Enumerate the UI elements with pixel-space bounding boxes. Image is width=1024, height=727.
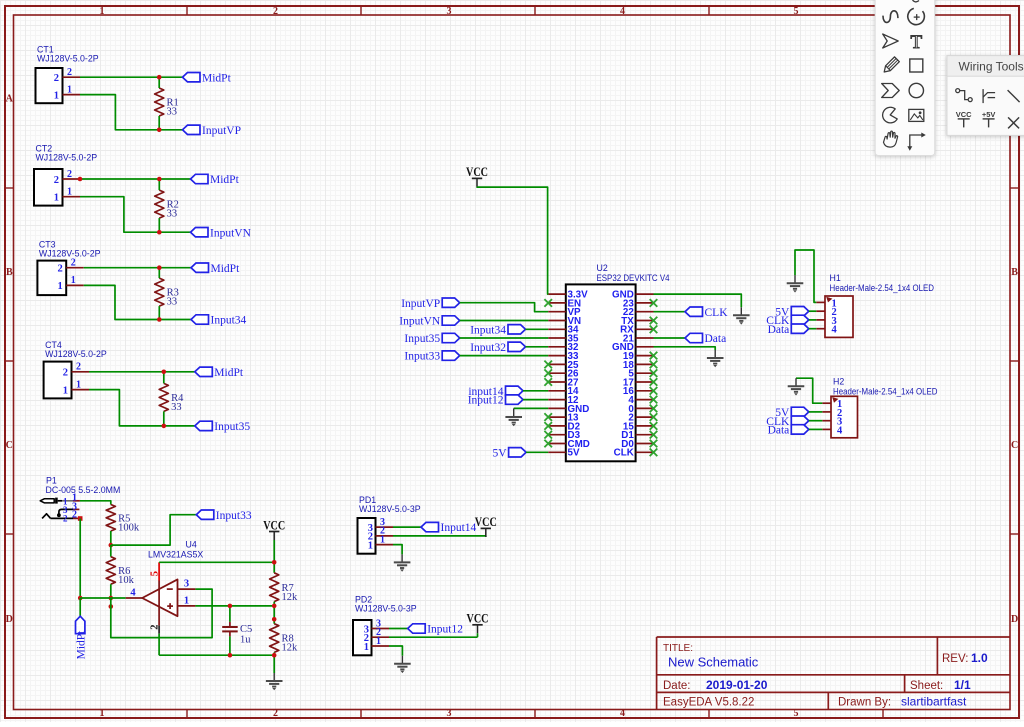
svg-text:10k: 10k — [118, 575, 135, 586]
svg-text:New Schematic: New Schematic — [668, 655, 759, 670]
net label Input32 — [470, 342, 525, 354]
svg-text:Input35: Input35 — [404, 333, 440, 345]
U2 right pin 22 stub — [636, 311, 654, 313]
PD1 pin number 1 — [380, 534, 385, 545]
CT1 pin name 1 — [54, 90, 59, 101]
wire H2 CLK — [809, 420, 823, 422]
connector CT3 part name WJ128V-5.0-2P — [39, 249, 101, 259]
connector H2 body — [831, 396, 858, 438]
CT4 pin 1 stub — [72, 389, 90, 391]
wire PD2 pin1 to ground — [389, 646, 402, 656]
no-connect X U2 right pin RX row 4 — [650, 326, 658, 334]
U2 pin name D2 (left) — [568, 421, 581, 432]
title block TITLE label — [663, 643, 693, 654]
U2 pin name GND (left) — [568, 404, 590, 415]
net label Input34 (CT3) — [191, 315, 247, 327]
no-connect X U2 right pin 15 row 15 — [650, 422, 658, 430]
U2 pin name VN (left) — [568, 316, 582, 327]
no-connect X U2 left pin EN — [544, 299, 552, 307]
wire R1 bottom lead — [158, 116, 160, 130]
svg-text:1: 1 — [368, 540, 373, 551]
U2 pin name EN (left) — [568, 298, 582, 309]
frame column label 3 top — [447, 6, 452, 17]
title block frame — [657, 637, 1010, 710]
svg-text:VCC: VCC — [263, 518, 285, 532]
U2 pin name 22 (right) — [623, 307, 634, 318]
U2 right pin 2 stub — [636, 416, 654, 418]
PD1 pin name 3 — [368, 523, 373, 534]
no-connect X U2 right pin D0 row 17 — [650, 440, 658, 448]
PD1 part name WJ128V-5.0-3P — [359, 504, 421, 514]
U2 pin name TX (right) — [621, 316, 634, 327]
svg-text:1u: 1u — [240, 634, 251, 645]
wire CT4 pin1 jog down — [89, 390, 195, 426]
frame column label 2 bottom — [273, 708, 278, 719]
toolbar icon polygon arrow — [882, 84, 900, 98]
svg-text:12k: 12k — [282, 643, 299, 654]
wire R5 bottom lead — [110, 531, 112, 545]
wire Input33 to U2 33 — [460, 355, 549, 357]
H1 pin1 marker — [826, 297, 832, 303]
U2 left pin 26 stub — [548, 372, 566, 374]
U2 pin name 3.3V (left) — [568, 290, 589, 301]
wire U4 pin5 to VCC net — [159, 561, 274, 563]
svg-text:D: D — [6, 614, 13, 625]
H1 pin name 3 — [832, 316, 837, 327]
svg-text:VCC: VCC — [467, 612, 489, 626]
net label CLK (H1) — [766, 315, 809, 327]
wire U4 pin2 down — [158, 634, 160, 656]
svg-text:EasyEDA V5.8.22: EasyEDA V5.8.22 — [663, 697, 754, 709]
svg-text:C: C — [6, 440, 13, 451]
wire R6 bottom lead — [110, 584, 112, 598]
wire R5 junction to Input33 — [111, 515, 197, 545]
svg-text:1: 1 — [364, 642, 369, 653]
svg-text:3: 3 — [447, 6, 452, 17]
wire VCC down to junction — [273, 540, 275, 573]
PD2 pin number 2 — [376, 627, 381, 638]
U2 left pin 25 stub — [548, 363, 566, 365]
junction C5 bottom — [228, 653, 233, 658]
CT4 pin name 2 — [63, 368, 68, 379]
svg-text:WJ128V-5.0-2P: WJ128V-5.0-2P — [36, 153, 98, 163]
connector H1 body — [825, 296, 853, 337]
svg-text:B: B — [6, 267, 13, 278]
U2 pin name GND (right) — [612, 290, 634, 301]
connector PD1 body — [358, 518, 376, 554]
CT4 pin 2 stub — [72, 371, 90, 373]
net label Data (H2) — [768, 425, 809, 437]
wire H2 Data — [809, 428, 823, 430]
junction below R7 — [272, 617, 277, 622]
toolbar partial icon (cut off top) — [913, 0, 920, 2]
U2 left pin D3 stub — [548, 434, 566, 436]
U2 pin name 21 (right) — [623, 333, 634, 344]
P1 pin name 1 — [63, 496, 68, 506]
wire R4 bottom lead — [163, 411, 165, 426]
ground symbol analog — [266, 673, 283, 690]
no-connect X U2 right pin 4 row 12 — [650, 396, 658, 404]
drawing tools palette panel — [875, 0, 935, 156]
U2 left pin 13 stub — [548, 416, 566, 418]
U2 pin name 17 (right) — [623, 377, 634, 388]
H1 part name Header-Male-2.54_1x4 OLED — [830, 283, 935, 293]
connector CT4 designator — [45, 340, 62, 350]
P1 pin 3 contact — [57, 509, 79, 517]
svg-text:2: 2 — [72, 509, 77, 520]
frame column ticks — [187, 6, 883, 718]
wire feedback loop — [111, 589, 212, 638]
toolbar icon rectangle — [910, 59, 923, 72]
U2 right pin GND stub — [636, 346, 654, 348]
wire U2 22 to CLK — [654, 311, 686, 313]
PD2 part name WJ128V-5.0-3P — [355, 604, 417, 614]
CT2 pin number 2 — [67, 169, 72, 180]
svg-text:Input34: Input34 — [470, 324, 506, 336]
svg-text:2: 2 — [67, 67, 72, 78]
CT3 pin name 1 — [57, 281, 62, 292]
svg-text:1: 1 — [57, 281, 62, 292]
net label 5V (H2) — [775, 407, 809, 419]
wire CT1 pin1 jog down — [80, 95, 183, 130]
title block REV label — [942, 653, 968, 665]
wire output net to MidPt flag — [79, 598, 81, 616]
CT4 pin number 2 — [76, 362, 81, 373]
P1 pin name 2 — [63, 514, 68, 524]
connector CT3 body — [37, 261, 66, 296]
U2 left pin 5V stub — [548, 451, 566, 453]
svg-text:U4: U4 — [186, 540, 197, 550]
svg-text:4: 4 — [620, 708, 625, 719]
capacitor C5 1u — [222, 622, 252, 646]
H2 pin 4 stub — [822, 428, 831, 430]
U2 pin name D0 (right) — [621, 439, 634, 450]
U2 right pin D1 stub — [636, 434, 654, 436]
svg-text:5V: 5V — [568, 448, 580, 459]
ground symbol PD2 — [394, 656, 411, 673]
H2 pin 2 stub — [822, 411, 831, 413]
wiring tools icon VCC — [956, 110, 972, 127]
net label Input14 — [421, 522, 477, 534]
no-connect X U2 left pin 25 — [544, 361, 552, 369]
wire H1 5V — [809, 310, 817, 312]
U2 pin name VP (left) — [568, 307, 582, 318]
P1 pin number 3 — [72, 502, 77, 513]
P1 pin 2 sleeve contact — [42, 514, 79, 519]
frame column label 2 top — [273, 6, 278, 17]
wire PD1 pin1 to ground — [393, 545, 402, 555]
wire CT2 pin1 jog down — [80, 197, 191, 233]
wire InputVN to U2 VN — [460, 320, 549, 322]
title block date value 2019-01-20 — [706, 678, 768, 692]
svg-text:1: 1 — [100, 6, 105, 17]
PD2 pin 2 stub — [372, 636, 390, 638]
U2 left pin 35 stub — [548, 337, 566, 339]
op IC U2 body — [566, 284, 636, 461]
svg-text:LMV321AS5X: LMV321AS5X — [148, 549, 203, 559]
wire input14 to U2 14 — [523, 390, 548, 392]
wire PD2 pin2 to VCC — [389, 636, 478, 638]
wire H2 5V — [809, 411, 823, 413]
net label InputVP — [183, 125, 241, 137]
U2 pin name 14 (left) — [568, 386, 579, 397]
frame column label 1 bottom — [100, 708, 105, 719]
svg-text:InputVP: InputVP — [202, 125, 241, 137]
wire PD2 pin3 to Input12 — [389, 628, 408, 630]
svg-text:H1: H1 — [830, 273, 841, 283]
U2 pin name 35 (left) — [568, 333, 579, 344]
wire P1 pin1 to R5 — [80, 501, 111, 505]
CT4 pin number 1 — [76, 379, 81, 390]
no-connect X U2 left pin D3 — [544, 431, 552, 439]
net label MidPt (CT3) — [191, 263, 240, 275]
frame row label B right — [1011, 267, 1018, 278]
U2 right pin 23 stub — [636, 302, 654, 304]
svg-text:Input33: Input33 — [216, 510, 252, 522]
junction output net at R6 — [109, 596, 114, 601]
svg-text:2019-01-20: 2019-01-20 — [706, 678, 768, 692]
ground symbol H2 — [788, 378, 805, 395]
svg-text:P1: P1 — [46, 476, 57, 486]
resistor R2 33 — [155, 190, 179, 220]
U4 pin 1 stub — [178, 605, 196, 607]
U2 right pin TX stub — [636, 320, 654, 322]
wire 5V to U2 5V — [526, 451, 548, 453]
wire H1 CLK — [809, 319, 817, 321]
net label 5V (U2) — [493, 447, 527, 459]
U2 right pin CLK stub — [636, 451, 654, 453]
wire PD1 pin3 to Input14 — [393, 526, 421, 528]
svg-text:Data: Data — [768, 425, 790, 437]
toolbar icon image — [909, 109, 924, 121]
svg-text:Data: Data — [768, 324, 790, 336]
svg-text:12k: 12k — [282, 592, 299, 603]
no-connect X U2 right pin 17 row 10 — [650, 378, 658, 386]
resistor R5 100k — [106, 505, 140, 534]
wire VCC to U2 3.3V — [477, 187, 548, 294]
PD1 pin name 1 — [368, 540, 373, 551]
no-connect X U2 left pin 26 — [544, 369, 552, 377]
svg-text:1: 1 — [380, 534, 385, 545]
wire CT1 pin2 to MidPt — [80, 76, 183, 78]
P1 pin name 3 — [63, 505, 68, 515]
resistor R1 33 — [155, 88, 179, 118]
U2 right pin 17 stub — [636, 381, 654, 383]
power flag VCC (PD2) — [467, 612, 489, 638]
resistor R6 10k — [106, 557, 134, 586]
svg-text:1: 1 — [184, 595, 189, 606]
title block sheet value 1/1 — [954, 678, 971, 692]
U4 pin number 4 — [130, 588, 136, 599]
PD2 pin name 2 — [364, 633, 369, 644]
net label MidPt (CT1) — [183, 72, 232, 84]
power flag VCC (U4) — [263, 518, 285, 540]
U2 left pin 27 stub — [548, 381, 566, 383]
svg-text:1.0: 1.0 — [971, 651, 988, 665]
net label Input35 (CT4) — [195, 421, 251, 433]
svg-text:CLK: CLK — [614, 448, 634, 459]
wire U2 21 to Data — [654, 337, 686, 339]
no-connect X U2 right pin 19 row 7 — [650, 352, 658, 360]
frame column label 5 bottom — [794, 708, 799, 719]
wire R3 bottom lead — [158, 306, 160, 319]
net label Input34 (U2) — [470, 324, 525, 336]
U2 right pin 5 stub — [636, 372, 654, 374]
no-connect X U2 right pin 0 row 13 — [650, 405, 658, 413]
U2 left pin GND stub — [548, 407, 566, 409]
junction CT3 top — [157, 265, 162, 270]
wiring tools panel — [947, 56, 1024, 136]
wire CT3 pin2 to MidPt — [84, 267, 191, 269]
wiring tools icon wire — [956, 89, 973, 102]
U2 left pin 33 stub — [548, 355, 566, 357]
no-connect X U2 right pin 2 row 14 — [650, 413, 658, 421]
toolbar icon arrow — [883, 34, 899, 48]
net label CLK (H2) — [766, 416, 809, 428]
U2 pin name CLK (right) — [614, 448, 634, 459]
CT3 pin number 2 — [71, 258, 76, 269]
frame row label C left — [6, 440, 13, 451]
U2 right pin GND stub — [636, 293, 654, 295]
svg-text:InputVN: InputVN — [399, 316, 441, 328]
svg-text:MidPt: MidPt — [210, 174, 240, 186]
svg-text:ESP32 DEVKITC V4: ESP32 DEVKITC V4 — [597, 273, 670, 283]
svg-text:Data: Data — [705, 333, 727, 345]
svg-text:2: 2 — [57, 264, 62, 275]
svg-text:100k: 100k — [118, 522, 140, 533]
U2 right pin 18 stub — [636, 363, 654, 365]
title block title value New Schematic — [668, 655, 759, 670]
wire Input12 to U2 12 — [523, 399, 548, 401]
power flag VCC (top) — [466, 165, 488, 187]
H1 pin 3 stub — [816, 319, 825, 321]
ground symbol right of U2 (lower) — [707, 350, 724, 367]
ground symbol H1 — [787, 275, 804, 292]
toolbar icon hand — [884, 131, 898, 147]
H1 pin name 1 — [832, 298, 837, 309]
svg-text:WJ128V-5.0-2P: WJ128V-5.0-2P — [37, 54, 99, 64]
svg-text:REV:: REV: — [942, 653, 968, 665]
svg-text:3: 3 — [447, 708, 452, 719]
svg-text:1: 1 — [67, 187, 72, 198]
PD2 pin number 3 — [376, 618, 381, 629]
net label Input33 (U2) — [404, 351, 459, 363]
PD1 designator — [359, 495, 376, 505]
U2 pin name 2 (right) — [628, 413, 634, 424]
PD2 pin number 1 — [376, 636, 381, 647]
junction C5 top — [228, 604, 233, 609]
frame row ticks — [5, 188, 1019, 534]
junction MidPt column — [78, 596, 83, 601]
svg-text:Input34: Input34 — [211, 315, 247, 327]
net label InputVN — [399, 316, 459, 328]
junction CT1 top — [157, 75, 162, 80]
U4 pin 4 stub — [126, 597, 143, 599]
CT1 pin 2 stub — [63, 76, 81, 78]
U4 pin number 5 — [150, 571, 161, 576]
junction output net below R6 — [109, 604, 114, 609]
net label Input12 — [408, 624, 464, 636]
net label MidPt (analog, vertical) — [75, 616, 87, 659]
connector P1 barrel symbol — [40, 498, 62, 504]
U2 pin name 18 (right) — [623, 360, 634, 371]
wire R2 bottom lead — [158, 218, 160, 232]
toolbar icon text T — [910, 32, 922, 53]
svg-text:Input33: Input33 — [404, 351, 440, 363]
svg-text:33: 33 — [167, 107, 178, 118]
title block EasyEDA version — [663, 697, 754, 709]
U4 pin 3 stub — [178, 588, 196, 590]
U2 left pin 14 stub — [548, 390, 566, 392]
wire H1 pin1 to ground — [795, 250, 816, 302]
svg-text:Input35: Input35 — [214, 421, 250, 433]
U2 pin name 32 (left) — [568, 342, 579, 353]
svg-text:4: 4 — [130, 588, 136, 599]
net label Data (H1) — [768, 324, 809, 336]
H2 pin name 4 — [837, 425, 843, 436]
junction VCC and pin5 — [272, 560, 277, 565]
svg-text:4: 4 — [832, 325, 838, 336]
CT2 pin name 1 — [54, 193, 59, 204]
svg-text:4: 4 — [837, 425, 843, 436]
H1 pin 4 stub — [816, 328, 825, 330]
P1 pin 1 lead — [62, 500, 80, 502]
H2 part name Header-Male-2.54_1x4 OLED — [833, 386, 938, 396]
resistor R3 33 — [155, 278, 179, 308]
toolbar icon bezier curve — [883, 11, 898, 23]
U2 right pin 21 stub — [636, 337, 654, 339]
net label Input35 (U2) — [404, 333, 459, 345]
U2 designator — [597, 263, 608, 273]
junction P1 pin2 (square) — [78, 516, 83, 521]
junction R5 bottom — [109, 543, 114, 548]
U2 pin name D3 (left) — [568, 430, 581, 441]
wire Input34 to U2 34 — [526, 328, 549, 330]
CT3 pin name 2 — [57, 264, 62, 275]
U2 pin name 0 (right) — [628, 404, 634, 415]
CT3 pin number 1 — [71, 275, 76, 286]
no-connect X U2 right pin D1 row 16 — [650, 431, 658, 439]
frame row label A right — [1011, 94, 1019, 105]
U2 pin name 5 (right) — [628, 369, 634, 380]
toolbar icon circle — [909, 83, 923, 97]
CT1 pin name 2 — [54, 73, 59, 84]
U2 pin name GND (right) — [612, 342, 634, 353]
net label InputVP — [401, 298, 459, 310]
U2 left pin CMD stub — [548, 443, 566, 445]
U2 part name ESP32 DEVKITC V4 — [597, 273, 670, 283]
P1 designator — [46, 476, 57, 486]
svg-text:1/1: 1/1 — [954, 678, 971, 692]
connector CT2 designator — [36, 144, 53, 154]
wire output net horizontal — [80, 597, 126, 599]
connector CT1 designator — [37, 45, 54, 55]
CT2 pin 2 stub — [63, 178, 81, 180]
U2 left pin EN stub — [548, 302, 566, 304]
junction CT2 bottom — [157, 230, 162, 235]
svg-text:33: 33 — [171, 402, 182, 413]
junction CT2 top — [157, 177, 162, 182]
U2 right pin RX stub — [636, 328, 654, 330]
svg-text:5: 5 — [794, 708, 799, 719]
U2 pin name CMD (left) — [568, 439, 590, 450]
PD1 pin 2 stub — [376, 535, 394, 537]
svg-text:InputVN: InputVN — [210, 227, 252, 239]
PD2 pin 1 stub — [372, 645, 390, 647]
svg-text:D: D — [1011, 614, 1018, 625]
toolbar icon arc — [908, 8, 925, 24]
U2 right pin 15 stub — [636, 425, 654, 427]
